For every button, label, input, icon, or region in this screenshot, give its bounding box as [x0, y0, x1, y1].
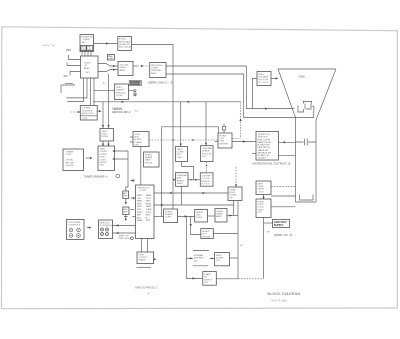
svg-text:SYNC: SYNC [102, 134, 108, 136]
svg-text:DEFL MOD): DEFL MOD) [119, 238, 131, 240]
svg-text:DET: DET [135, 145, 140, 147]
wire dashed into M1 [70, 111, 81, 113]
svg-text:MODULE: MODULE [258, 137, 268, 139]
svg-text:VERT: VERT [102, 131, 108, 133]
svg-text:BURST: BURST [177, 180, 185, 182]
wire long y102 bus [93, 101, 241, 103]
block T3 AGC keyed [118, 37, 132, 51]
svg-text:VOLTAGE: VOLTAGE [258, 76, 269, 79]
block M2 [100, 129, 114, 142]
wires N5 to B3 [142, 239, 148, 253]
wire T2 bottom corners to left [66, 78, 87, 102]
block N7 tint cont [200, 173, 213, 186]
block Q2 [195, 210, 208, 223]
svg-text:DAMP FOCUS: DAMP FOCUS [258, 141, 272, 144]
svg-text:SERVICE: SERVICE [100, 222, 110, 224]
svg-text:PHASE: PHASE [135, 141, 143, 144]
block P2 horizontal output module [256, 132, 279, 161]
svg-text:4.5 MHZ: 4.5 MHZ [82, 108, 91, 110]
svg-text:SHUT: SHUT [216, 255, 223, 257]
wire y126.8 to crystal [162, 127, 219, 217]
svg-text:YOKE: YOKE [257, 204, 264, 206]
wire H loop down [253, 78, 257, 108]
svg-text:(PT OF 7): (PT OF 7) [258, 82, 268, 84]
wire Q1 to Q2 [178, 215, 195, 217]
svg-text:4 5: 4 5 [240, 245, 244, 247]
arrow between B1 B2 [87, 227, 90, 229]
svg-text:BLANK: BLANK [145, 156, 153, 159]
block Q6 [215, 253, 230, 266]
wire P2 to yoke [279, 141, 296, 143]
svg-text:SER REG: SER REG [194, 258, 204, 260]
wire vertical x103 [102, 102, 104, 129]
wire between R1 R2 [263, 195, 265, 200]
svg-text:CKT: CKT [204, 282, 209, 284]
wires T2 inputs [67, 55, 81, 76]
wire stub to R4 [264, 222, 273, 224]
svg-text:DRIVE: DRIVE [100, 162, 107, 164]
wire N6 bottom down [181, 186, 183, 205]
wire Q6 right [230, 257, 239, 259]
svg-text:CONT: CONT [196, 217, 203, 219]
svg-text:CONT: CONT [165, 217, 172, 219]
svg-text:DRIVE: DRIVE [216, 214, 223, 216]
block R2 [256, 199, 271, 218]
svg-text:LUM: LUM [177, 157, 182, 159]
svg-text:DRIVER: DRIVER [202, 236, 211, 238]
svg-text:SOUND IF: SOUND IF [82, 110, 93, 112]
svg-text:PULSE: PULSE [145, 162, 153, 164]
svg-text:4.5M: 4.5M [108, 58, 113, 60]
svg-text:COILS: COILS [257, 207, 264, 209]
svg-text:(PART OF ⑦) →: (PART OF ⑦) → [274, 233, 296, 237]
wire N2 to N7 Z-connector [182, 162, 194, 180]
svg-text:R-Y B-Y: R-Y B-Y [202, 184, 211, 186]
svg-text:HORIZ: HORIZ [135, 139, 142, 141]
svg-text:DOWN: DOWN [216, 258, 223, 260]
svg-text:SYNC: SYNC [100, 157, 106, 159]
stub at N5 left [132, 215, 135, 217]
block M3 vert countdown [98, 146, 115, 171]
line below B3 [137, 266, 152, 268]
svg-text:IF AGC: IF AGC [119, 38, 127, 41]
wires M3 right to S1 [115, 151, 129, 191]
wire branch to Q5 [186, 257, 193, 259]
svg-text:AFT: AFT [82, 41, 87, 44]
block T5 video amp [118, 62, 133, 76]
svg-text:TUNER: TUNER [66, 152, 74, 154]
svg-text:CONT: CONT [66, 154, 73, 156]
block T6 vert module [115, 84, 129, 100]
svg-text:DET: DET [86, 72, 91, 74]
block N1 sync agc [133, 132, 149, 147]
svg-text:AGC: AGC [137, 216, 142, 219]
svg-text:OUT: OUT [202, 234, 207, 236]
wires P3 bottom verticals [234, 201, 239, 279]
wire N1 down to N5 [140, 147, 142, 186]
svg-text:HORIZ: HORIZ [196, 212, 203, 214]
svg-text:SUP: SUP [123, 212, 128, 214]
svg-text:OSC: OSC [202, 156, 207, 158]
svg-text:GATE: GATE [145, 159, 151, 162]
wire branch x190.7 to Q4 [191, 216, 201, 234]
svg-text:NOISE INV: NOISE INV [119, 44, 131, 46]
svg-text:3RD VIDEO: 3RD VIDEO [151, 65, 163, 67]
svg-text:OSC: OSC [137, 209, 142, 211]
svg-text:UP: UP [204, 277, 208, 279]
svg-text:AFT: AFT [123, 192, 127, 195]
wire M4 dash arrow [86, 157, 91, 159]
svg-text:TUNER: TUNER [82, 39, 90, 41]
wire branch to N2 [180, 102, 182, 147]
svg-text:→ TUNER DRAWER ⑤: → TUNER DRAWER ⑤ [80, 175, 108, 179]
block T7 luminance [150, 63, 166, 78]
svg-text:PROT: PROT [146, 212, 152, 214]
svg-text:CKT: CKT [229, 197, 234, 199]
wire dashed vertical x240.5 [240, 102, 242, 139]
circle mark below N5 [131, 237, 134, 240]
svg-text:CONV: CONV [257, 209, 264, 211]
wire H to CRT [271, 77, 278, 79]
svg-text:SYNC: SYNC [137, 212, 143, 214]
svg-text:NORMAL: NORMAL [194, 254, 204, 257]
svg-text:DRIVER: DRIVER [220, 143, 229, 145]
svg-text:CHROMA: CHROMA [177, 174, 187, 177]
svg-text:LADD: LADD [177, 148, 183, 151]
block Q4 [201, 229, 214, 239]
svg-text:GEN: GEN [146, 201, 151, 203]
svg-text:DEFLECT &: DEFLECT & [138, 188, 151, 190]
pin marker arrow-bar [131, 179, 135, 182]
svg-text:SUPPLY: SUPPLY [204, 279, 213, 281]
svg-text:CHROMA: CHROMA [151, 69, 161, 72]
block P1 horiz osc [218, 133, 232, 148]
block B2 service controls [99, 220, 113, 239]
svg-text:INTEG: INTEG [102, 136, 109, 138]
wire T5 to T7 [133, 65, 138, 67]
svg-text:CKT: CKT [257, 212, 262, 214]
wire N5 y205 to x233.5 [154, 204, 234, 206]
svg-text:TRACE SW: TRACE SW [258, 149, 269, 152]
CRT gun [298, 101, 314, 112]
svg-text:HORIZ: HORIZ [257, 201, 264, 203]
svg-text:3.58 REF: 3.58 REF [202, 175, 212, 177]
funnel wires T2 to T5 [98, 64, 118, 72]
block N4 [144, 152, 160, 167]
svg-text:IF: IF [85, 65, 88, 67]
wire vertical x108 [108, 74, 110, 129]
svg-text:VIDEO: VIDEO [120, 67, 127, 69]
svg-text:ON-OFF: ON-OFF [66, 165, 75, 167]
CRT yoke capacitor symbol [296, 139, 317, 146]
svg-text:FILT: FILT [177, 154, 182, 156]
wire N5 to P3 [154, 192, 228, 194]
svg-text:HORIZ: HORIZ [165, 211, 172, 213]
svg-text:YOKE: YOKE [257, 186, 264, 188]
svg-text:X-RAY: X-RAY [229, 188, 236, 191]
wire Q4 right [213, 233, 238, 235]
svg-text:GATE: GATE [137, 219, 143, 222]
wire R2 to neck bottom [271, 206, 296, 208]
svg-text:HORIZ OUT: HORIZ OUT [258, 134, 271, 136]
svg-text:HOLD: HOLD [229, 192, 235, 194]
svg-text:4: 4 [148, 293, 150, 296]
block D1 dark module tag [129, 80, 141, 85]
block T2 video IF [81, 56, 99, 78]
svg-text:HORIZ: HORIZ [220, 135, 227, 137]
arrow at M1 right [97, 110, 99, 112]
svg-text:OUTPUT: OUTPUT [138, 257, 148, 259]
svg-text:AUDIO DET: AUDIO DET [82, 112, 95, 115]
svg-text:POWER SU: POWER SU [81, 37, 93, 39]
svg-text:LOGIC: LOGIC [100, 159, 107, 161]
wire spine stub into N6 [173, 179, 176, 181]
block Q1 [164, 209, 178, 223]
svg-text:GATE: GATE [177, 182, 183, 185]
block N5 deflection table [136, 185, 155, 239]
svg-text:CHROMA: CHROMA [202, 147, 212, 150]
svg-text:AGC DELAY: AGC DELAY [119, 46, 132, 49]
svg-text:VERT: VERT [137, 201, 143, 203]
wires T1 to T2 [82, 52, 91, 57]
wire AGC spine down [132, 44, 174, 209]
svg-text:AMPL: AMPL [120, 69, 127, 72]
svg-text:DEMOD: DEMOD [202, 151, 211, 153]
svg-text:VERT: VERT [138, 254, 144, 256]
block H high voltage [257, 72, 271, 86]
svg-text:RETRACE SW: RETRACE SW [258, 151, 271, 154]
arrow right of S2 [131, 209, 135, 211]
svg-text:AMPL: AMPL [216, 215, 223, 218]
block R1 [256, 181, 271, 195]
wire dashed R1 to neck [271, 185, 296, 187]
svg-text:REG: REG [146, 215, 151, 217]
block S2 [123, 207, 129, 215]
wire P1 left stub [215, 141, 218, 143]
svg-text:VERT: VERT [116, 87, 122, 89]
svg-text:HIGH: HIGH [258, 74, 264, 76]
svg-text:HORIZ: HORIZ [216, 211, 223, 213]
wire Q3 right to x238 [227, 215, 238, 217]
svg-text:6-0-79 20a: 6-0-79 20a [272, 298, 288, 302]
svg-text:SAND: SAND [146, 194, 152, 197]
svg-text:BPA: BPA [177, 177, 182, 180]
svg-text:PHASE: PHASE [165, 213, 173, 216]
svg-text:SERVICE SW ②: SERVICE SW ② [112, 111, 131, 114]
block B3 [137, 252, 154, 264]
svg-text:VIDEO: VIDEO [84, 63, 91, 65]
block T1 UHF/VHF tuners [80, 35, 94, 52]
wire T7 to CRT lower [166, 74, 314, 117]
junction circle symbol [116, 174, 120, 178]
svg-text:CB DEFL: CB DEFL [258, 158, 267, 160]
wire y196 to neck [271, 195, 296, 197]
svg-text:COLOR: COLOR [202, 178, 210, 180]
svg-text:V2(B): V2(B) [298, 75, 305, 79]
wire N5 to Q1 [154, 215, 164, 217]
svg-text:CSTL: CSTL [146, 198, 152, 200]
svg-text:SEP: SEP [137, 215, 142, 217]
svg-text:DRIVE: DRIVE [257, 189, 264, 191]
ground symbol right of T6 [129, 91, 138, 97]
svg-text:VERT: VERT [257, 183, 263, 185]
svg-text:DRV: DRV [137, 203, 142, 205]
svg-text:VERT: VERT [137, 195, 143, 197]
wire P1 to P2 [232, 141, 256, 143]
svg-text:X-RAY: X-RAY [146, 208, 153, 211]
svg-text:HORIZ: HORIZ [202, 231, 209, 233]
antenna stub marks [64, 50, 74, 84]
svg-text:AGC: AGC [135, 136, 140, 139]
svg-text:DOWN: DOWN [229, 195, 236, 197]
svg-text:OSC: OSC [220, 138, 225, 140]
svg-text:LUMIN: LUMIN [151, 68, 158, 70]
block S1 [123, 191, 129, 199]
wire to T6 left [94, 90, 115, 92]
svg-text:MODULE: MODULE [131, 83, 141, 85]
wire N3 to N7 [206, 162, 208, 174]
wire branch to N3 [205, 102, 207, 146]
svg-text:1ST-2ND: 1ST-2ND [120, 65, 129, 67]
svg-text:AFT SW: AFT SW [66, 161, 75, 164]
svg-text:B+: B+ [146, 217, 149, 219]
svg-text:4: 4 [103, 81, 105, 85]
svg-text:CONTROLS: CONTROLS [68, 225, 81, 227]
svg-text:4-5: 4-5 [135, 111, 139, 113]
wire S1 to S2 [125, 199, 127, 204]
wires T2 bottom to M1 [91, 78, 95, 106]
wire N6 to N7 [188, 179, 200, 181]
block Q5 open box [193, 251, 209, 266]
crystal above P1 [222, 124, 225, 133]
block M4 tuner control [63, 149, 84, 171]
arrow Q5 to Q6 [210, 257, 215, 259]
svg-text:OSC: OSC [137, 198, 142, 200]
wire T7 to CRT upper [166, 66, 294, 109]
wire dashed P2 area to P3 [235, 167, 237, 187]
svg-text:COMB: COMB [177, 152, 184, 154]
wire dashed N1 to P1 [149, 139, 218, 141]
svg-text:MODULE: MODULE [116, 92, 126, 94]
CRT base bracket [300, 195, 314, 201]
wire B4 right solid and dashed [216, 278, 238, 280]
svg-text:(SERV ONLY)→①: (SERV ONLY)→① [148, 81, 173, 85]
svg-text:VERT: VERT [100, 149, 106, 151]
arrow right of S1 [131, 197, 134, 199]
svg-text:BLOCK DIAGRAM: BLOCK DIAGRAM [268, 292, 301, 296]
svg-text:SUP: SUP [146, 220, 151, 222]
svg-text:w: w [268, 231, 271, 234]
svg-text:AMPL: AMPL [151, 72, 158, 75]
wire P2 to neck lower [279, 154, 296, 156]
ground below S2 [124, 215, 128, 219]
block N6 chroma amp [176, 173, 189, 187]
svg-text:DEF: DEF [123, 196, 128, 198]
svg-text:SWEEP: SWEEP [116, 90, 124, 92]
svg-text:(#9-87): (#9-87) [116, 95, 123, 97]
svg-text:BLNK: BLNK [146, 203, 152, 205]
block N2 [176, 147, 188, 162]
svg-text:SYS 3.58: SYS 3.58 [202, 153, 212, 155]
svg-text:CONT: CONT [140, 190, 147, 192]
svg-text:AMPL: AMPL [84, 67, 91, 70]
svg-text:CKT: CKT [216, 260, 221, 262]
svg-text:START: START [204, 273, 212, 276]
wires M2 to M3 [103, 141, 109, 146]
svg-text:(HORIZONTAL OUTPUT) ③: (HORIZONTAL OUTPUT) ③ [253, 162, 291, 166]
svg-text:(4-5): (4-5) [83, 118, 88, 120]
svg-text:WIRE SUPPRESS ①: WIRE SUPPRESS ① [135, 287, 159, 290]
svg-text:COILS: COILS [257, 191, 264, 193]
svg-text:KEYED AGC: KEYED AGC [119, 40, 132, 43]
svg-text:COUNT: COUNT [100, 151, 108, 153]
svg-text:CUSTOMER: CUSTOMER [68, 222, 81, 224]
svg-text:OSC: OSC [100, 165, 105, 167]
svg-text:HORIZ: HORIZ [145, 154, 152, 156]
svg-text:SW: SW [194, 260, 198, 262]
svg-text:SUPPLY: SUPPLY [274, 224, 284, 227]
svg-text:GATE: GATE [146, 205, 152, 208]
svg-text:SYNC: SYNC [135, 134, 141, 136]
wire L below tuner [61, 85, 75, 93]
svg-text:& FOCUS: & FOCUS [258, 79, 268, 81]
wire R2 bottom down [263, 218, 265, 279]
block B4 [203, 272, 217, 286]
faint scan smudge top-left [42, 45, 55, 47]
svg-text:PRE: PRE [220, 141, 225, 143]
svg-text:DOWN: DOWN [100, 154, 107, 156]
svg-text:CH SEL: CH SEL [66, 160, 75, 162]
block P3 [228, 187, 242, 201]
svg-text:STAGE: STAGE [138, 259, 146, 262]
block R4 low voltage [273, 220, 290, 228]
CRT funnel [278, 69, 336, 202]
wire dashed P1 right to x240 [232, 138, 241, 140]
svg-text:DEMOD: DEMOD [202, 181, 211, 183]
svg-text:OSC: OSC [196, 215, 201, 217]
block M1 sync noise [80, 106, 97, 121]
wire long vertical x186.3 [186, 216, 203, 278]
wire Q2 to Q3 [208, 215, 216, 217]
wire N1 left stubs [130, 137, 133, 142]
arrow right of B3 [154, 258, 156, 260]
block N3 [201, 146, 214, 162]
block Q3 [215, 209, 227, 223]
block B1 customer controls [67, 220, 85, 240]
svg-text:HOR: HOR [137, 206, 142, 208]
block T4 small IF box [108, 55, 115, 61]
svg-text:CONTROLS: CONTROLS [100, 225, 113, 227]
wires B2 to N5 [113, 225, 136, 233]
wire T1 to T3 [94, 43, 118, 45]
wire stub into P2 left [252, 153, 256, 155]
